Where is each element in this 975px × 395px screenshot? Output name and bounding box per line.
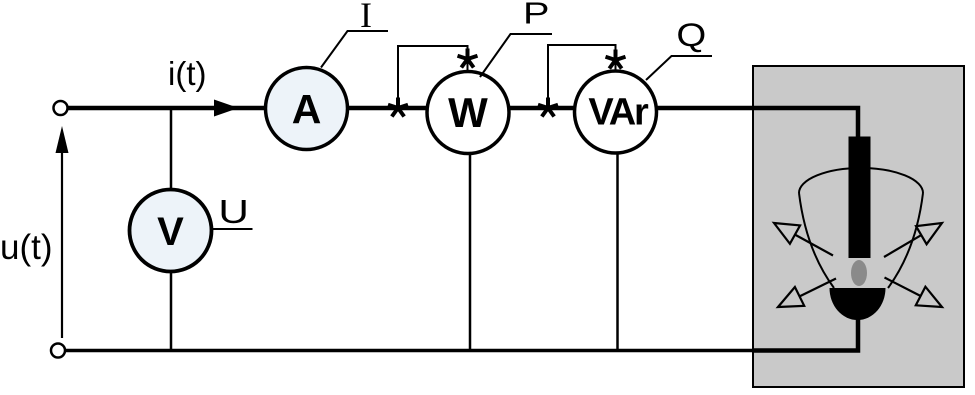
load box (illuminant enclosure) [753, 66, 964, 387]
lamp ray arrow upper-right [884, 223, 942, 257]
wire: bottom rail [65, 349, 756, 353]
svg-text:A: A [292, 86, 322, 132]
label P [523, 0, 549, 30]
lamp bulb dome [830, 288, 886, 320]
leader line Q [646, 56, 712, 80]
asterisk: W current terminal [388, 98, 408, 117]
label U [218, 194, 249, 231]
wire: V branch from top rail [170, 108, 173, 190]
bracket: VAr voltage connection [548, 45, 616, 98]
svg-text:u(t): u(t) [0, 228, 53, 267]
wire: V branch to bottom rail [170, 271, 173, 350]
asterisk: VAr current terminal [538, 98, 558, 117]
u(t) source arrow [56, 126, 69, 338]
wire: lamp bottom lead [753, 316, 858, 351]
asterisk: W voltage terminal [458, 49, 478, 68]
wire: lamp top lead [657, 108, 859, 140]
asterisk: VAr voltage terminal [606, 50, 626, 69]
wire: top rail from terminal to ammeter [68, 106, 267, 111]
ammeter A [266, 68, 348, 150]
lamp reflector outline [799, 168, 923, 193]
wire: VAr bottom to rail [616, 153, 619, 350]
svg-text:W: W [448, 89, 488, 136]
wire: A to W [348, 106, 429, 111]
leader line U [212, 228, 253, 230]
svg-text:VAr: VAr [588, 92, 649, 134]
svg-text:I: I [360, 0, 372, 35]
wattmeter W [427, 72, 509, 154]
leader line P [480, 34, 552, 77]
varmeter VAr [575, 71, 657, 153]
svg-text:Q: Q [676, 18, 706, 53]
terminal bottom-left [51, 344, 65, 358]
svg-text:U: U [218, 194, 249, 231]
label Q [676, 18, 706, 53]
wire: W bottom to rail [469, 154, 472, 350]
current direction arrow [214, 100, 239, 117]
lamp ray arrow lower-right [885, 278, 943, 308]
leader line I [321, 31, 388, 68]
lamp ray arrow lower-left [778, 279, 836, 308]
voltmeter V [130, 190, 212, 272]
bracket: W voltage connection [398, 46, 468, 98]
lamp arc (gray ellipse) [851, 260, 867, 286]
svg-text:i(t): i(t) [168, 55, 206, 92]
terminal top-left [54, 101, 68, 115]
svg-text:P: P [523, 0, 549, 30]
lamp electrode bar [849, 137, 871, 259]
svg-text:V: V [157, 210, 184, 254]
lamp ray arrow upper-left [774, 223, 833, 256]
wire: W to VAr [509, 106, 576, 111]
